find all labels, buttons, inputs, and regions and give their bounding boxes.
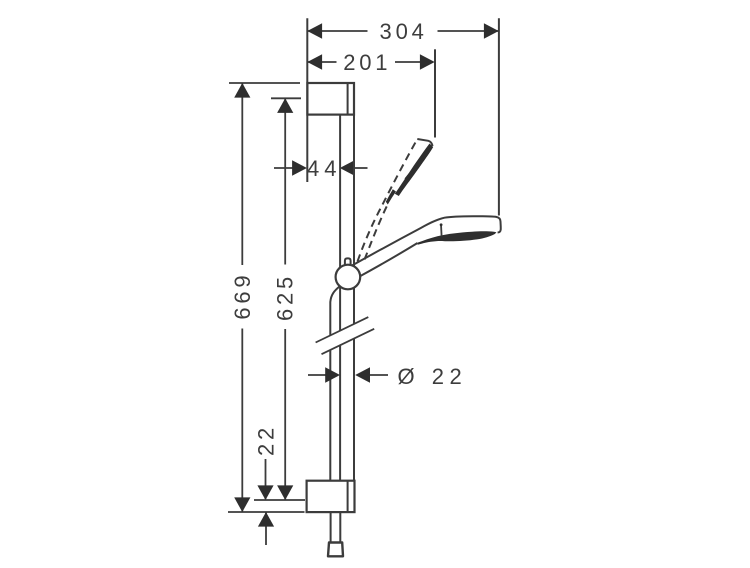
raised hand shower dashed outline left: [358, 141, 417, 262]
shower rail right edge: [353, 116, 355, 481]
slider holder pin: [345, 258, 351, 265]
dimension 669 top arrow: [234, 83, 250, 98]
dimension 669 line: [241, 83, 243, 265]
dimension 201 right arrow: [420, 54, 435, 70]
dimension 625 extension tick bottom: [254, 499, 305, 501]
dimension Ø22 right arrow (points left): [355, 367, 370, 383]
slider holder circle: [336, 265, 361, 290]
dimension Ø22 left arrow (points right): [325, 367, 340, 383]
svg-text:22: 22: [253, 424, 278, 456]
dimension 201 line: [307, 61, 336, 63]
dimension Ø22 leader lines: [308, 374, 326, 376]
top wall bracket: [307, 83, 354, 115]
hand shower handle lower edge: [360, 243, 418, 277]
dimension 625 extension tick top: [271, 97, 301, 99]
dimension 44 left arrow (points right): [292, 160, 307, 176]
dimension 304 right arrow: [484, 23, 499, 39]
bottom wall bracket inner line: [347, 481, 349, 512]
pipe break white band: [316, 317, 375, 354]
dimension 304 line: [307, 30, 367, 32]
raised hand shower dashed outline right: [365, 206, 388, 260]
svg-text:201: 201: [343, 50, 391, 75]
dimension 44 right arrow (points left): [340, 160, 355, 176]
dimension 304 left arrow: [307, 23, 322, 39]
pipe break diagonal upper: [316, 317, 369, 342]
shower hose upper run: [330, 287, 339, 481]
top wall bracket inner line: [347, 83, 349, 115]
dimension 44 leader lines: [274, 167, 293, 169]
shower hose lower run right: [339, 512, 341, 542]
dimension 201 left arrow: [307, 54, 322, 70]
extension line right of 304 (hand shower head right): [498, 18, 500, 215]
svg-text:625: 625: [273, 273, 298, 321]
dimension 669 extension tick bottom: [228, 511, 305, 513]
dimension 669 bottom arrow: [234, 497, 250, 512]
dimension 22 lower leader: [265, 512, 267, 545]
bottom wall bracket: [307, 481, 355, 512]
hand shower select button tick: [440, 224, 443, 236]
dimension 625 line: [284, 98, 286, 264]
dimension 669 extension tick top: [229, 82, 300, 84]
raised hand shower spray face band: [386, 144, 433, 205]
hose conical connector: [328, 543, 343, 557]
dimension 625 bottom arrow: [277, 485, 293, 500]
svg-text:669: 669: [230, 272, 255, 320]
svg-text:Ø 22: Ø 22: [398, 364, 468, 389]
svg-text:44: 44: [307, 156, 341, 181]
extension line right of 201 (raised hand shower tip): [434, 49, 436, 137]
raised hand shower spray face band thick upper: [405, 146, 433, 182]
svg-text:304: 304: [380, 19, 428, 44]
hand shower spray face dark band: [418, 231, 497, 245]
extension line left (wall bracket left edge, for 304/201/44): [306, 18, 308, 182]
dimension 22 lower arrow (points up): [258, 512, 274, 527]
dimension 22 line upper: [265, 459, 267, 499]
dimension 22 upper arrow (points down): [257, 485, 273, 500]
shower hose lower run left: [330, 512, 332, 542]
dimension 625 top arrow: [277, 98, 293, 113]
shower rail left edge: [339, 116, 341, 481]
hand shower handle upper edge and head top: [352, 216, 501, 265]
raised hand shower tip cap: [417, 139, 432, 146]
pipe break diagonal lower: [322, 329, 375, 354]
